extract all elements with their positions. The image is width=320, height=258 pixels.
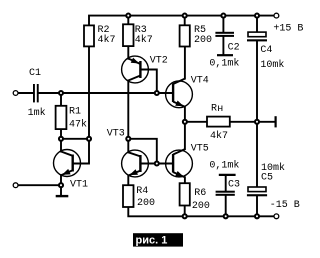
svg-text:рис. 1: рис. 1	[136, 235, 168, 247]
wire C5 bottom stem	[256, 196, 258, 216]
wire R5 top lead	[184, 16, 186, 26]
wire C5 stem	[256, 122, 258, 187]
capacitor C1	[28, 68, 46, 119]
svg-text:47k: 47k	[69, 119, 87, 131]
wire R6 bottom lead	[184, 206, 186, 217]
terminal input1	[13, 91, 18, 96]
wire R2 bottom lead	[88, 46, 90, 138]
wire ground stem	[60, 185, 62, 195]
wire VT5 base lead	[157, 163, 173, 165]
node VT2/VT3 collectors	[126, 137, 130, 141]
wire C4 top stem	[256, 16, 258, 32]
svg-text:R4: R4	[136, 186, 148, 197]
wire VT4 collector lead	[184, 46, 186, 78]
terminal -15	[274, 214, 279, 219]
node R2 bottom	[87, 137, 91, 141]
wire C3 bottom stem	[225, 196, 227, 217]
transistor VT2	[122, 56, 168, 83]
wire +15 rail with corner into R2	[89, 16, 274, 26]
resistor R3	[123, 24, 153, 46]
wire R3 to VT2 emitter	[127, 46, 129, 59]
wire VT4 emitter lead	[184, 107, 186, 122]
svg-text:200: 200	[192, 201, 210, 212]
node VT3/VT5 bases	[155, 161, 159, 165]
node C4/C5/Rn	[255, 120, 259, 124]
svg-text:4k7: 4k7	[98, 34, 116, 46]
wire R3 top lead	[127, 16, 129, 25]
caption fig 1	[133, 233, 183, 246]
node R1 top	[59, 91, 63, 95]
wire C4 to node	[256, 41, 258, 121]
wire Rn to output bar	[230, 121, 275, 123]
resistor R6	[180, 183, 210, 212]
svg-text:R: R	[211, 104, 217, 115]
svg-text:VT5: VT5	[191, 143, 209, 154]
wire node 128.3,138.8 to VT3 base	[128, 139, 157, 164]
svg-text:C3: C3	[228, 180, 240, 191]
wire VT5 emitter lead	[184, 177, 186, 183]
svg-text:C4: C4	[260, 45, 272, 56]
wire R1 bottom lead	[60, 129, 62, 139]
svg-text:200: 200	[194, 35, 212, 46]
node VT2 base / VT4 base	[155, 91, 159, 95]
node C3 rail	[224, 214, 228, 218]
node C5 rail	[255, 214, 259, 218]
capacitor C3	[209, 160, 240, 196]
node R6 rail	[183, 214, 187, 218]
svg-text:н: н	[217, 104, 223, 115]
svg-text:VT2: VT2	[150, 56, 168, 67]
wire VT1 base feed	[73, 139, 89, 164]
svg-text:1mk: 1mk	[28, 107, 46, 119]
node C4 rail	[255, 14, 259, 18]
capacitor C4 (electrolytic)	[247, 32, 284, 71]
svg-text:4k7: 4k7	[210, 130, 228, 142]
svg-text:10mk: 10mk	[260, 59, 284, 71]
node R1 bottom	[59, 137, 63, 141]
transistor VT1	[54, 150, 89, 191]
svg-text:VT3: VT3	[107, 129, 125, 140]
wire VT3 collector lead	[127, 139, 129, 153]
wire input1 stub	[18, 92, 33, 94]
terminal input2	[13, 183, 18, 188]
wire C3 top stem	[225, 176, 227, 191]
svg-text:VT1: VT1	[70, 180, 88, 191]
wire VT1 emitter lead	[60, 175, 62, 185]
svg-text:R1: R1	[69, 107, 81, 118]
transistor VT4	[166, 75, 209, 107]
svg-text:200: 200	[137, 198, 155, 209]
wire main input net y=93	[39, 92, 174, 94]
node C2 rail	[221, 14, 225, 18]
node output	[183, 120, 187, 124]
wire node to Rn	[185, 121, 207, 123]
capacitor C2	[209, 32, 239, 70]
svg-text:C1: C1	[29, 68, 41, 79]
node R5 rail	[183, 14, 187, 18]
resistor R2	[84, 25, 116, 47]
resistor Rn (load)	[207, 104, 230, 142]
svg-text:+15 В: +15 В	[273, 24, 303, 35]
wire VT2 collector lead	[127, 81, 129, 139]
transistor VT5	[166, 143, 209, 177]
wire VT1 collector lead	[60, 139, 62, 152]
wire VT2 base to node	[140, 70, 156, 94]
resistor R5	[180, 25, 212, 47]
node VT1 emitter	[59, 183, 63, 187]
wire R4 to -15 rail	[128, 207, 274, 216]
svg-text:VT4: VT4	[191, 75, 209, 86]
transistor VT3	[107, 129, 149, 177]
wire R1 top lead	[60, 93, 62, 106]
wire node row y=138.8 between R1 and R2 columns	[61, 138, 89, 140]
wire input2	[18, 184, 61, 186]
node R3 rail	[126, 14, 130, 18]
svg-text:0,1mk: 0,1mk	[209, 58, 239, 70]
svg-text:0,1mk: 0,1mk	[209, 160, 239, 172]
resistor R1	[56, 106, 87, 131]
svg-text:C5: C5	[261, 173, 273, 184]
wire VT5 collector lead	[184, 122, 186, 149]
svg-text:-15 В: -15 В	[270, 200, 300, 211]
capacitor C5 (electrolytic)	[247, 162, 285, 196]
wire VT3 emitter to R4	[127, 176, 129, 186]
ground	[56, 195, 69, 197]
svg-text:C2: C2	[228, 42, 240, 53]
resistor R4	[123, 185, 155, 209]
terminal +15	[274, 13, 279, 18]
svg-text:R6: R6	[194, 188, 206, 199]
wire VT3 base lead	[140, 163, 156, 165]
wire C2 bottom stem	[222, 37, 224, 54]
output common bar	[275, 116, 277, 127]
wire C2 top stem	[222, 16, 224, 32]
svg-text:4k7: 4k7	[135, 34, 153, 46]
